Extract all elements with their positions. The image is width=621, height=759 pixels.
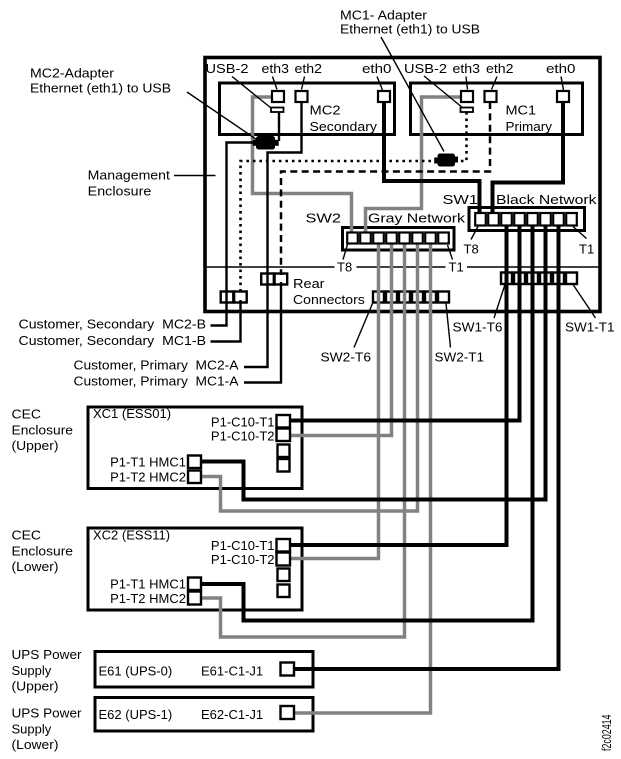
svg-text:Black Network: Black Network xyxy=(496,192,597,207)
svg-text:(Lower): (Lower) xyxy=(12,559,59,574)
svg-text:eth0: eth0 xyxy=(362,61,392,76)
svg-text:CEC: CEC xyxy=(12,407,42,422)
svg-text:Primary: Primary xyxy=(506,119,553,134)
svg-text:T1: T1 xyxy=(579,242,594,257)
svg-text:UPS Power: UPS Power xyxy=(12,647,83,662)
svg-text:eth3: eth3 xyxy=(453,61,481,76)
svg-text:SW1: SW1 xyxy=(443,192,479,207)
svg-text:Supply: Supply xyxy=(12,722,52,737)
svg-text:P1-C10-T2: P1-C10-T2 xyxy=(211,552,275,567)
svg-text:Supply: Supply xyxy=(12,663,52,678)
svg-text:eth2: eth2 xyxy=(486,61,514,76)
svg-text:E61 (UPS-0): E61 (UPS-0) xyxy=(99,664,173,679)
svg-text:Enclosure: Enclosure xyxy=(88,184,152,199)
svg-text:Enclosure: Enclosure xyxy=(12,544,74,559)
svg-text:E62 (UPS-1): E62 (UPS-1) xyxy=(99,707,173,722)
svg-text:Enclosure: Enclosure xyxy=(12,423,74,438)
svg-text:(Lower): (Lower) xyxy=(12,737,59,752)
svg-text:T8: T8 xyxy=(337,260,352,275)
svg-text:Connectors: Connectors xyxy=(293,292,365,307)
svg-text:eth2: eth2 xyxy=(295,61,323,76)
svg-text:(Upper): (Upper) xyxy=(12,438,59,453)
svg-text:SW2: SW2 xyxy=(306,211,342,226)
svg-text:USB-2: USB-2 xyxy=(206,61,249,76)
svg-text:MC1: MC1 xyxy=(506,103,537,118)
svg-text:E61-C1-J1: E61-C1-J1 xyxy=(201,664,263,679)
svg-text:Ethernet (eth1) to USB: Ethernet (eth1) to USB xyxy=(30,81,171,96)
svg-text:T1: T1 xyxy=(449,260,464,275)
svg-text:Customer, Primary MC1-A: Customer, Primary MC1-A xyxy=(74,374,239,389)
svg-text:SW1-T1: SW1-T1 xyxy=(565,320,615,335)
svg-text:Secondary: Secondary xyxy=(310,119,378,134)
svg-text:CEC: CEC xyxy=(12,528,42,543)
svg-text:Rear: Rear xyxy=(293,276,325,291)
svg-text:P1-T1 HMC1: P1-T1 HMC1 xyxy=(110,577,186,592)
svg-text:Gray Network: Gray Network xyxy=(368,211,466,226)
svg-text:f2c02414: f2c02414 xyxy=(599,715,614,752)
svg-text:Management: Management xyxy=(88,168,171,183)
svg-text:XC1 (ESS01): XC1 (ESS01) xyxy=(93,406,171,421)
svg-text:Ethernet (eth1) to USB: Ethernet (eth1) to USB xyxy=(340,22,480,37)
svg-text:eth3: eth3 xyxy=(262,61,290,76)
svg-text:P1-T1 HMC1: P1-T1 HMC1 xyxy=(110,455,186,470)
svg-text:P1-T2 HMC2: P1-T2 HMC2 xyxy=(110,470,186,485)
svg-text:SW2-T1: SW2-T1 xyxy=(435,350,485,365)
svg-text:MC2: MC2 xyxy=(310,103,341,118)
svg-text:UPS Power: UPS Power xyxy=(12,706,83,721)
svg-text:P1-C10-T2: P1-C10-T2 xyxy=(211,429,275,444)
svg-text:eth0: eth0 xyxy=(546,61,576,76)
svg-text:MC2-Adapter: MC2-Adapter xyxy=(30,66,115,81)
svg-text:SW1-T6: SW1-T6 xyxy=(453,320,503,335)
svg-text:(Upper): (Upper) xyxy=(12,679,59,694)
svg-text:Customer, Primary MC2-A: Customer, Primary MC2-A xyxy=(74,358,239,373)
svg-text:XC2 (ESS11): XC2 (ESS11) xyxy=(93,528,170,543)
svg-text:USB-2: USB-2 xyxy=(404,61,447,76)
svg-text:P1-C10-T1: P1-C10-T1 xyxy=(211,415,275,430)
svg-text:P1-T2 HMC2: P1-T2 HMC2 xyxy=(110,591,186,606)
svg-text:T8: T8 xyxy=(464,242,479,257)
svg-text:MC1- Adapter: MC1- Adapter xyxy=(340,8,428,23)
svg-text:Customer, Secondary MC2-B: Customer, Secondary MC2-B xyxy=(19,317,207,332)
svg-text:Customer, Secondary MC1-B: Customer, Secondary MC1-B xyxy=(19,333,207,348)
svg-text:SW2-T6: SW2-T6 xyxy=(321,350,372,365)
svg-text:E62-C1-J1: E62-C1-J1 xyxy=(201,707,263,722)
svg-text:P1-C10-T1: P1-C10-T1 xyxy=(211,538,275,553)
